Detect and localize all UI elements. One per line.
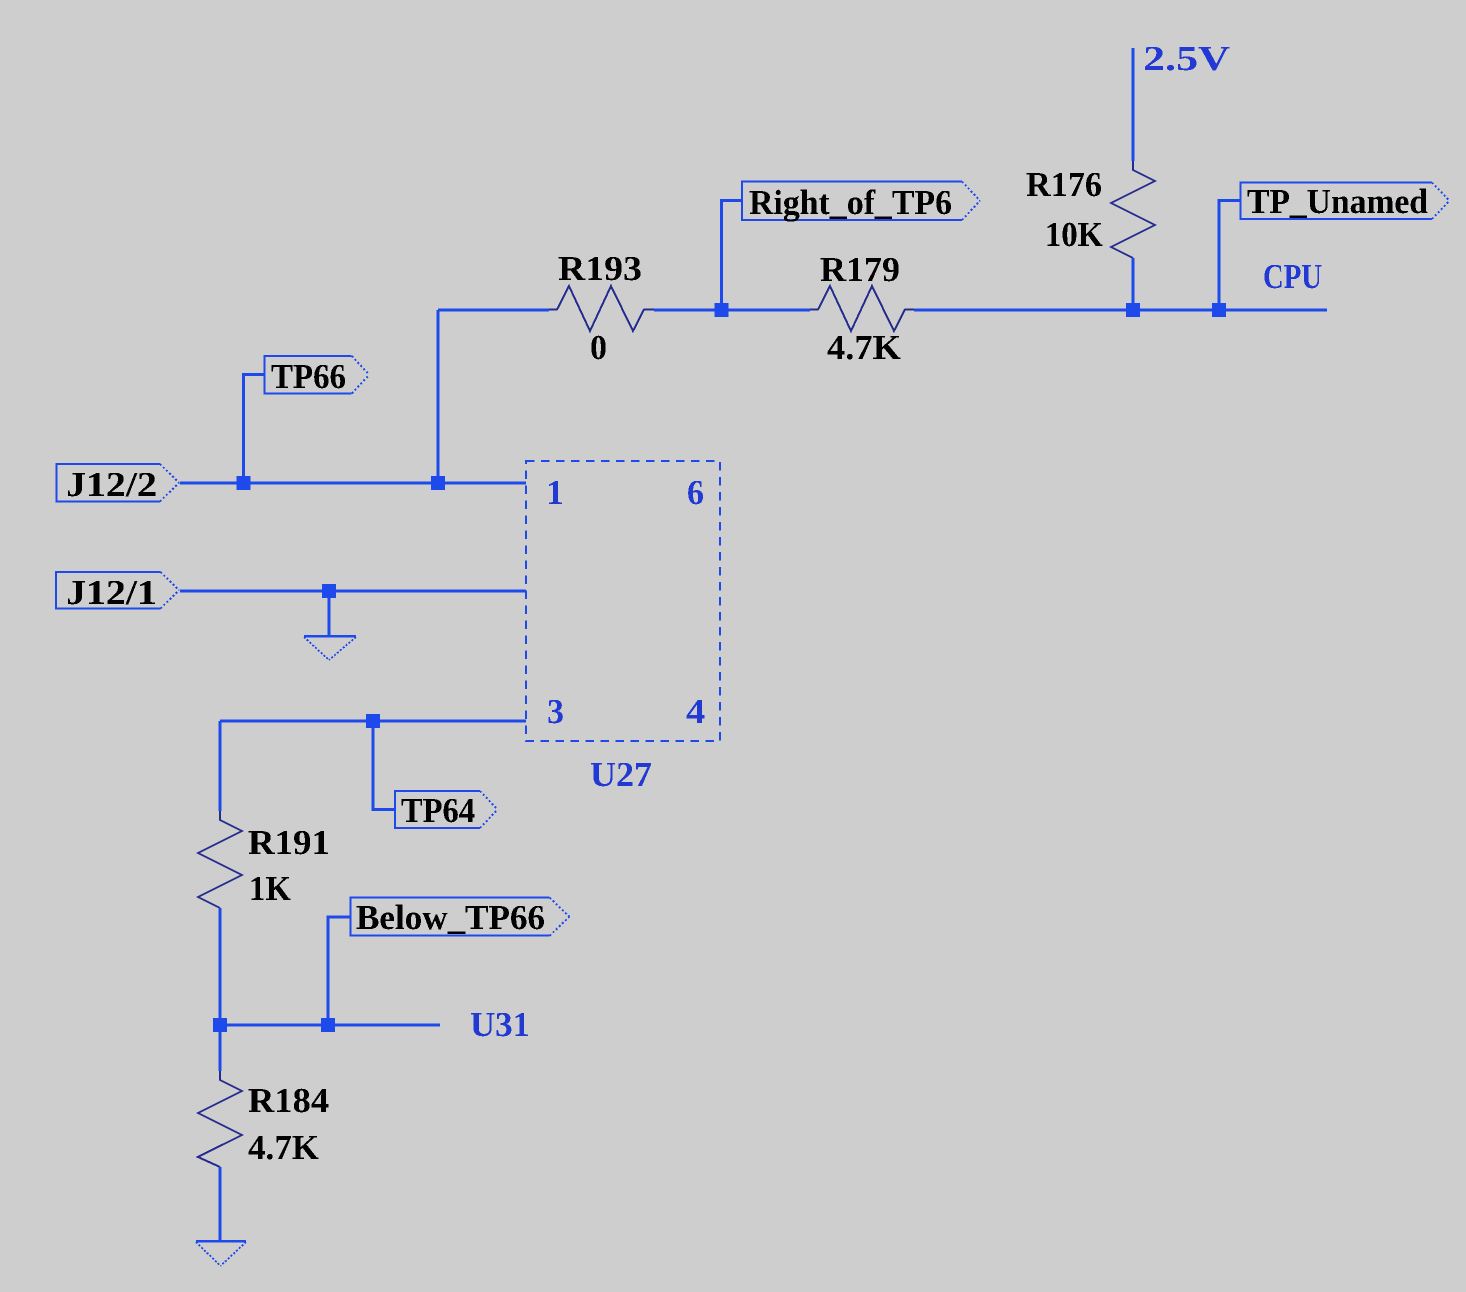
junction J12/2 vertical riser <box>431 476 445 490</box>
resistor R193 (horizontal zigzag) <box>549 286 654 331</box>
wire R176 bottom to main net <box>1132 258 1135 310</box>
value 1K <box>252 877 291 900</box>
wire J12/1 net to U27 pin 2 <box>180 590 526 593</box>
wire TP66 stem <box>244 375 265 484</box>
label R184 <box>249 1089 329 1113</box>
value 4.7K <box>827 336 900 360</box>
wire Below_TP66 stem <box>328 917 351 1025</box>
main horizontal net wire segment left <box>438 309 549 312</box>
value 10K <box>1048 223 1103 247</box>
wire U27 pin 3 net <box>220 720 526 723</box>
value 0 <box>591 336 605 360</box>
net label CPU <box>1264 265 1321 289</box>
label R176 <box>1027 173 1101 197</box>
designator U27 <box>591 763 651 786</box>
wire between R193 and R179 <box>654 309 810 312</box>
junction U31/Below_TP66 <box>321 1018 335 1032</box>
label R193 <box>559 257 641 281</box>
pin number 1 <box>549 481 562 504</box>
wire U31 net down to R184 <box>219 1025 222 1071</box>
main wire right segment to CPU <box>914 309 1327 312</box>
wire U31 net <box>220 1024 440 1027</box>
junction main/Right_of_TP6 <box>715 303 729 317</box>
flag J12/1 <box>56 572 179 609</box>
wire R191 bottom to U31 net <box>219 908 222 1025</box>
label R179 <box>821 258 899 282</box>
ground symbol (R184) <box>196 1241 246 1266</box>
ground symbol (J12/1) <box>304 636 356 660</box>
junction J12/2/TP66 <box>237 476 251 490</box>
pin number 4 <box>687 700 705 723</box>
flag J12/2 <box>57 464 180 502</box>
pin number 3 <box>548 700 563 724</box>
IC U27 dashed outline <box>526 461 720 741</box>
value 4.7K <box>248 1136 318 1160</box>
resistor R184 (vertical zigzag) <box>198 1071 242 1167</box>
label R191 <box>249 831 328 855</box>
junction J12/1/ground <box>322 584 336 598</box>
pin number 6 <box>688 481 703 505</box>
resistor R191 (vertical zigzag) <box>198 811 242 908</box>
flag TP64 <box>395 791 498 828</box>
wire riser to main net <box>437 310 440 483</box>
wire TP64 stem <box>373 721 395 810</box>
net label 2.5V <box>1145 47 1230 71</box>
wire ground stem <box>328 591 331 635</box>
wire Right_of_TP6 to main net <box>722 201 743 311</box>
flag TP_Unamed <box>1241 183 1450 220</box>
junction pin3/TP64 <box>366 714 380 728</box>
junction U31/R191 <box>213 1018 227 1032</box>
net label U31 <box>471 1013 528 1037</box>
flag Right_of_TP6 <box>742 182 980 222</box>
power net 2.5V vertical wire <box>1132 48 1135 161</box>
resistor R179 (horizontal zigzag) <box>810 286 914 331</box>
junction main/TP_Unamed <box>1212 303 1226 317</box>
resistor R176 (vertical zigzag) <box>1111 161 1155 258</box>
junction main/R176 <box>1126 303 1140 317</box>
wire pin3 down to R191 <box>219 721 222 811</box>
wire R184 bottom to ground <box>219 1167 222 1240</box>
flag TP66 <box>265 356 370 394</box>
wire TP_Unamed to main net <box>1219 201 1241 311</box>
wire J12/2 net to U27 pin 1 <box>180 482 526 485</box>
flag Below_TP66 <box>350 898 569 936</box>
